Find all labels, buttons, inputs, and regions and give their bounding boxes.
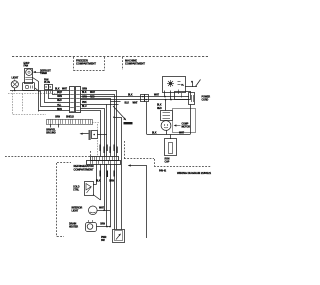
compressor feed drop [146,102,148,135]
cold control thermostat [85,182,94,196]
2-pin plug label [44,78,50,84]
freezer lamp L1 label [12,77,19,80]
ground strip bar [47,120,93,125]
plug ticks [46,91,48,94]
relay feed [165,100,167,111]
wire labels below connector [100,171,116,178]
timer right wire [185,86,197,88]
run capacitor [165,139,177,156]
svg-text:MOTOR: MOTOR [182,125,191,128]
svg-text:CORD: CORD [202,98,209,101]
harness connector bar upper [91,157,119,161]
bottom right part number text [159,170,212,175]
wire run y106 [40,106,70,108]
cabinet ground callout arrow [113,106,126,120]
interior light label [72,207,83,213]
wire run y98 [48,98,70,100]
freezer liner dashed lines [8,93,62,95]
fan lead diagonal wire [33,78,39,112]
heater wire [97,226,111,228]
interior light wire [97,210,110,212]
refrigerator compartment dashed box [57,162,71,164]
thermostat wires [93,184,97,186]
freezer lamp lead wire [14,88,16,91]
bottom dashed border right segment [154,166,211,168]
machine compartment label [125,59,145,66]
svg-text:WHT: WHT [99,207,105,209]
ground drops [50,124,52,128]
svg-text:RED: RED [57,100,62,102]
capacitor label [165,158,170,164]
ground strip labels [55,117,74,119]
connector J1 plug half [70,87,75,113]
refrigerator compartment label [74,164,94,171]
svg-text:PNK: PNK [82,102,87,104]
interconnect wire right [97,134,107,136]
top dashed border of compartments [12,56,208,58]
svg-text:WIRING DIAGRAM 2183121: WIRING DIAGRAM 2183121 [177,171,212,175]
interconnect plug [89,130,91,140]
bottom dashed border left segment [5,156,91,158]
svg-text:BRN: BRN [57,109,62,111]
base diagonal wire [35,88,40,92]
svg-text:WHT: WHT [133,103,139,105]
defrost timer box [163,77,186,93]
svg-text:WHT: WHT [62,89,68,91]
diagonal wire top right [196,80,201,87]
bottom bus wire [147,134,190,136]
wire to drop x96 [81,111,101,157]
svg-text:P/N 42: P/N 42 [159,170,167,173]
wire to drop x116 [81,91,117,157]
power cord plug [189,93,195,105]
fan motor base [23,83,35,91]
evaporator fan motor label [24,62,30,68]
right long drop wire [121,117,123,229]
svg-text:CTRL: CTRL [73,189,80,192]
cold control label [73,186,80,192]
left wire labels [55,89,68,112]
switch symbol [116,234,121,240]
compressor outline [173,109,196,133]
svg-text:WHT: WHT [57,92,63,94]
harness connector bar lower [87,161,121,165]
capacitor drop [170,135,172,140]
svg-text:TIMER: TIMER [40,72,47,75]
bottom switch box [113,230,125,243]
svg-text:SW: SW [101,239,105,242]
svg-text:GRN/YEL: GRN/YEL [46,130,56,132]
wire run y102 [44,102,70,104]
svg-text:BLK: BLK [157,104,162,106]
wire run y110 [38,110,69,112]
freezer compartment label dashed box [104,57,106,71]
svg-text:ORN: ORN [109,181,114,183]
svg-text:ORN: ORN [57,96,62,98]
svg-text:GROUND: GROUND [46,133,56,135]
wire to drop x108 [81,99,111,157]
svg-text:HEATER: HEATER [69,226,78,229]
svg-text:CAP: CAP [165,161,170,164]
svg-text:FAN: FAN [44,78,49,81]
inline connector on bus [141,95,145,102]
svg-text:PLUG: PLUG [44,82,50,84]
svg-text:WHT: WHT [154,95,160,97]
svg-text:SHIELD: SHIELD [66,117,74,119]
timer leads to bus [164,91,166,97]
svg-text:OL: OL [181,85,185,87]
evaporator fan motor assembly [25,69,33,84]
connector pins [70,91,80,112]
svg-text:BLK: BLK [55,89,60,91]
relay box [161,111,173,121]
wire run y94 [52,94,70,96]
refrigerator feed wires below connector [96,164,98,185]
svg-text:COMPARTMENT: COMPARTMENT [76,62,96,66]
svg-text:BLK: BLK [152,132,157,134]
svg-text:WHT: WHT [90,92,96,94]
wire sleeve labels above connector [100,145,118,154]
wire to drop x112 [81,95,115,157]
svg-text:LIGHT: LIGHT [12,77,19,80]
compressor callout [174,124,177,126]
wire to drop x100 [81,109,105,157]
ground strip dashed continuation [92,122,101,124]
compressor bottom lead [166,130,168,134]
2-pin plug [45,85,49,90]
compressor terminal labels [157,104,162,110]
machine compartment divider stub [122,57,124,70]
compressor motor circle [161,121,171,131]
svg-text:BLK: BLK [96,181,101,183]
svg-text:WHT: WHT [179,132,185,134]
interior light lamp [89,206,98,215]
svg-text:FAN: FAN [24,64,29,67]
timer motor symbol [167,80,181,87]
condenser fan box [175,92,191,100]
freezer lamp L1 [11,81,18,88]
defrost drain heater label [69,223,78,229]
bottom section return wire [129,166,147,239]
svg-text:YEL: YEL [57,105,62,107]
svg-text:COMPARTMENT: COMPARTMENT [125,62,145,66]
svg-text:BLK: BLK [125,103,130,105]
wire top run [10,90,70,92]
svg-text:LIGHT: LIGHT [72,210,79,213]
bottom dashed border middle segment [124,158,154,160]
bus branch stubs [111,101,121,103]
interconnect arrow left [80,133,83,135]
right wire labels [82,89,96,109]
power cord label [202,95,211,101]
fan callout arrow [34,72,42,74]
svg-text:BLU: BLU [82,106,87,108]
bus upper wire [81,96,190,98]
bus labels [125,95,160,105]
svg-text:ORN: ORN [100,224,105,226]
wire to drop x104 [81,105,107,157]
bus lower wire [81,99,190,101]
svg-text:BLK: BLK [82,92,87,94]
connector J1 socket half [76,87,81,113]
svg-text:GRN: GRN [55,117,60,119]
svg-text:COMPARTMENT: COMPARTMENT [74,167,94,171]
wire fan-out verticals [40,91,42,107]
bottom switch label [101,236,107,242]
defrost drain heater [86,223,97,232]
freezer compartment label [76,59,96,66]
svg-text:BLK: BLK [128,95,133,97]
svg-text:RED: RED [157,108,162,110]
power return drop [190,105,192,135]
stub wire to right drop [115,117,122,119]
